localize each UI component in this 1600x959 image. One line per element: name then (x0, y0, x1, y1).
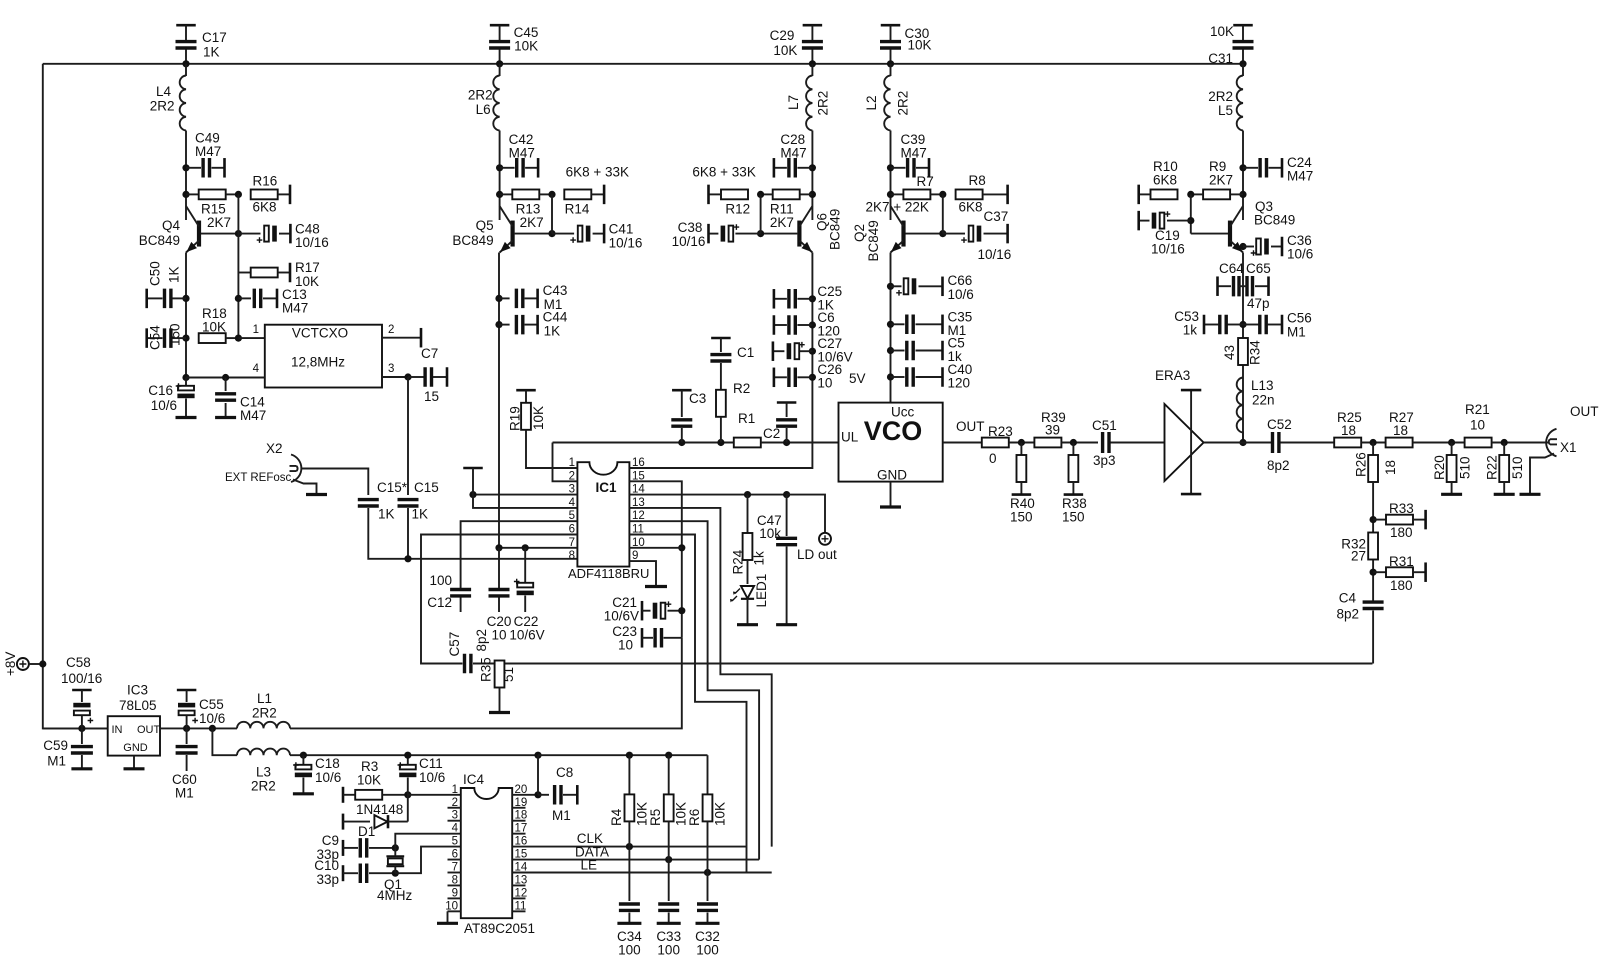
terminal bar C26 (773, 368, 776, 388)
wire to VCO UL (761, 442, 839, 444)
terminal bar C2 (777, 401, 797, 404)
svg-text:2K7: 2K7 (1209, 173, 1233, 188)
ground C32 (696, 922, 720, 925)
svg-text:4: 4 (452, 823, 459, 835)
svg-text:10K: 10K (713, 802, 728, 826)
resistor R7 (903, 190, 930, 200)
wire (890, 25, 892, 40)
svg-text:L1: L1 (257, 691, 272, 706)
wire (786, 547, 788, 625)
wire R19 to IC1 pin 1 (526, 430, 577, 468)
svg-text:D1: D1 (358, 824, 375, 839)
svg-text:R19: R19 (508, 406, 523, 431)
wire (499, 64, 501, 76)
svg-text:8p2: 8p2 (1267, 458, 1290, 473)
wire (668, 913, 670, 923)
svg-text:OUT: OUT (956, 419, 985, 434)
svg-text:10K: 10K (202, 320, 226, 335)
svg-text:R5: R5 (648, 809, 663, 826)
capacitor C29 (802, 42, 823, 48)
wire (916, 376, 943, 378)
wire (173, 337, 187, 339)
wire (186, 728, 188, 744)
wire (388, 821, 408, 823)
svg-text:C51: C51 (1092, 418, 1117, 433)
junction base/C41 (548, 230, 555, 237)
junction C13 (235, 295, 242, 302)
svg-text:8p2: 8p2 (474, 629, 489, 652)
wire emitter line Q5 down to IC1 pin7 (498, 253, 500, 549)
wire (664, 637, 682, 639)
svg-text:BC849: BC849 (828, 209, 843, 250)
terminal bar C28 (773, 158, 776, 178)
wire (407, 755, 409, 764)
junction supply/pin20 (534, 752, 541, 759)
wire (1243, 324, 1259, 326)
svg-text:C43: C43 (543, 283, 568, 298)
svg-text:C1: C1 (737, 345, 754, 360)
svg-text:L4: L4 (156, 84, 172, 99)
svg-text:OUT: OUT (1570, 404, 1599, 419)
junction pin3 tie (469, 491, 476, 498)
svg-text:C9: C9 (322, 833, 339, 848)
capacitor C31 (1233, 42, 1254, 48)
wire (797, 167, 812, 169)
svg-text:10/16: 10/16 (978, 247, 1012, 262)
wire (891, 193, 904, 195)
svg-text:C7: C7 (421, 346, 438, 361)
wire bias vertical (942, 194, 944, 233)
terminal bar pin2 (420, 328, 423, 348)
svg-text:10K: 10K (908, 38, 932, 53)
svg-text:2K7: 2K7 (770, 215, 794, 230)
ground VCO (880, 505, 901, 508)
wire (1413, 442, 1465, 444)
junction pin20/C8 (534, 791, 541, 798)
wire (747, 560, 749, 584)
svg-text:2R2: 2R2 (468, 88, 493, 103)
capacitor C7 (425, 367, 431, 387)
wire (642, 637, 653, 639)
capacitor C22 (517, 583, 533, 588)
svg-text:R34: R34 (1248, 340, 1263, 365)
IC ADF4118BRU IC1 body (577, 462, 629, 566)
terminal bar C37 (1006, 224, 1009, 244)
wire IC4 pin 10 (448, 910, 461, 912)
terminal bar C49 (223, 158, 226, 178)
junction C21/Vdd bus (678, 607, 685, 614)
svg-text:2K7: 2K7 (520, 215, 544, 230)
transistor Q5 (510, 221, 514, 247)
wire (499, 297, 510, 299)
wire (212, 167, 225, 169)
svg-text:M47: M47 (282, 301, 308, 316)
svg-text:10/6: 10/6 (151, 398, 177, 413)
junction base/C48 (235, 230, 242, 237)
junction C17/rail (182, 60, 189, 67)
svg-text:10/16: 10/16 (672, 234, 706, 249)
svg-text:R26: R26 (1354, 452, 1369, 477)
terminal bar C5 (941, 341, 944, 361)
svg-text:BC849: BC849 (1254, 213, 1295, 228)
resistor R9 (1203, 190, 1230, 200)
junction C5 (887, 347, 894, 354)
svg-text:C52: C52 (1267, 417, 1292, 432)
junction R15/R16 (235, 191, 242, 198)
wire (930, 193, 942, 195)
terminal bar C3 (672, 389, 692, 392)
resistor R38 (1069, 455, 1079, 482)
svg-text:R12: R12 (725, 202, 750, 217)
transistor Q6 (797, 221, 801, 247)
wire down to C4 (1372, 482, 1374, 601)
capacitor C41 (578, 226, 583, 242)
svg-text:43: 43 (1222, 345, 1237, 360)
IC AT89C2051 IC4 body (461, 788, 512, 918)
wire (186, 167, 201, 169)
wire (226, 337, 239, 339)
transistor Q4 (197, 221, 201, 247)
resistor R40 (1017, 455, 1027, 482)
junction R9/R10 (1187, 191, 1194, 198)
wire (225, 378, 227, 392)
junction C3 (678, 439, 685, 446)
svg-text:LD out: LD out (797, 547, 837, 562)
wire collector line Q4 (185, 131, 187, 221)
wire ERA3 output (1204, 442, 1272, 444)
junction C19 (1187, 217, 1194, 224)
wire (185, 378, 187, 389)
capacitor C48 (264, 226, 269, 242)
junction C29/rail (809, 60, 816, 67)
ground R20 (1441, 493, 1462, 496)
capacitor C56 (1260, 315, 1266, 335)
svg-text:AT89C2051: AT89C2051 (464, 921, 535, 936)
svg-text:10: 10 (491, 628, 506, 643)
wire (681, 390, 683, 417)
wire (1271, 246, 1282, 248)
svg-text:10/6: 10/6 (315, 770, 341, 785)
svg-text:10: 10 (817, 376, 832, 391)
svg-text:3p3: 3p3 (1093, 453, 1116, 468)
wire (447, 911, 449, 922)
wire C4 to RF line (1372, 611, 1374, 664)
capacitor C45 (489, 42, 510, 48)
wire (343, 794, 355, 796)
wire crystal to IC4 pin 5 (395, 847, 461, 874)
junction pin7/C20 (495, 544, 502, 551)
terminal bar C23 (641, 628, 644, 648)
svg-text:C41: C41 (609, 222, 634, 237)
wire bias vertical (760, 194, 762, 233)
capacitor C2 (776, 420, 797, 426)
svg-text:GND: GND (877, 468, 907, 483)
wire (1072, 443, 1074, 456)
resistor R23 (982, 438, 1009, 448)
wire LE line (512, 872, 772, 874)
junction C30/rail (887, 60, 894, 67)
terminal bar D1 (342, 814, 345, 830)
svg-text:ERA3: ERA3 (1155, 368, 1190, 383)
capacitor C23 (655, 628, 661, 648)
terminal bar above C45 (490, 24, 510, 27)
capacitor C20 (489, 590, 510, 596)
terminal bar R40 (1012, 493, 1032, 496)
wire (774, 167, 787, 169)
capacitor C34 (619, 904, 640, 910)
capacitor C44 (516, 315, 522, 335)
svg-text:LE: LE (580, 858, 597, 873)
capacitor C1 (710, 355, 731, 361)
wire IC1 pin 2 up to loop filter (553, 443, 578, 482)
svg-text:L13: L13 (1251, 378, 1274, 393)
wire (797, 350, 812, 352)
wire (1372, 443, 1374, 456)
wire IC1 pin 13 to LE (629, 508, 771, 847)
wire (302, 778, 304, 794)
ground C18 (293, 792, 314, 795)
terminal bar C24 (1281, 158, 1284, 178)
wire (81, 690, 83, 702)
svg-text:18: 18 (1341, 423, 1356, 438)
wire (774, 324, 787, 326)
terminal bar C21 (641, 601, 644, 621)
wire (1243, 246, 1254, 248)
wire (983, 193, 1008, 195)
ground IC3 (124, 767, 145, 770)
wire (799, 193, 812, 195)
capacitor C5 (907, 341, 913, 361)
wire (891, 323, 905, 325)
capacitor C18 (295, 765, 311, 770)
wire (185, 25, 187, 40)
junction C54/R18 (182, 335, 189, 342)
junction C35 (887, 321, 894, 328)
svg-text:6K8 + 33K: 6K8 + 33K (566, 165, 629, 180)
wire (343, 847, 358, 849)
wire IC4 pin 18 stub (512, 820, 525, 822)
terminal bar R38 (1064, 493, 1084, 496)
capacitor C49 (203, 158, 209, 178)
terminal bar C43 (536, 289, 539, 309)
wire IC3 gnd (133, 756, 135, 768)
junction R40 (1018, 439, 1025, 446)
capacitor C39 (908, 158, 914, 178)
terminal bar C66 (941, 277, 944, 297)
capacitor C43 (516, 289, 522, 309)
capacitor C17 (176, 42, 197, 48)
svg-text:2R2: 2R2 (816, 91, 831, 116)
wire (1451, 443, 1453, 456)
IC 78L05 IC3 body (108, 716, 160, 755)
wire (774, 376, 787, 378)
wire (1255, 285, 1269, 287)
capacitor C51 (1103, 432, 1109, 453)
junction C58/C59 (78, 725, 85, 732)
wire (720, 338, 722, 352)
svg-text:5V: 5V (849, 371, 866, 386)
svg-text:2R2: 2R2 (1208, 89, 1233, 104)
wire emitter Q6 down to IC1 pin 16 (629, 253, 812, 469)
svg-text:2K7: 2K7 (207, 215, 231, 230)
capacitor C66 (904, 278, 909, 294)
junction pin3/C15 (404, 373, 411, 380)
ground bar pin 9 (645, 585, 667, 588)
svg-text:EXT REFosc: EXT REFosc (225, 472, 291, 484)
junction crystal top (392, 844, 399, 851)
resistor R21 (1465, 438, 1492, 448)
svg-text:22n: 22n (1252, 393, 1275, 408)
ground C33 (657, 922, 681, 925)
wire (279, 233, 290, 235)
wire (1242, 432, 1244, 443)
junction C28 tap (809, 164, 816, 171)
wire IC1 pin 10 (629, 547, 681, 549)
capacitor C21 (661, 603, 666, 619)
capacitor C27 (795, 343, 800, 359)
svg-text:1k: 1k (1183, 323, 1198, 338)
terminal bar above C30 (881, 24, 901, 27)
svg-text:R24: R24 (731, 549, 746, 574)
svg-text:C54: C54 (147, 325, 162, 350)
svg-text:Q2: Q2 (852, 224, 867, 242)
svg-text:L5: L5 (1218, 103, 1233, 118)
svg-text:M47: M47 (1287, 169, 1313, 184)
wire (369, 847, 395, 849)
wire VCTCXO pin 4 (186, 377, 265, 379)
capacitor C8 (555, 785, 561, 805)
connector X2 (291, 455, 301, 483)
svg-text:R6: R6 (687, 809, 702, 826)
svg-text:R7: R7 (917, 174, 934, 189)
svg-text:100: 100 (657, 943, 680, 958)
terminal bar R19 (516, 389, 536, 392)
terminal bar C6 (773, 315, 776, 335)
wire IC4 pin 9 stub (448, 897, 461, 899)
terminal bar C25 (773, 289, 776, 309)
capacitor C9 (360, 838, 366, 858)
wire (499, 324, 510, 326)
svg-text:78L05: 78L05 (119, 698, 157, 713)
terminal bar C1 (711, 337, 731, 340)
svg-text:M47: M47 (195, 144, 221, 159)
resistor R32 (1368, 533, 1378, 560)
wire +5V rail over pullups (538, 754, 708, 756)
capacitor C55 (179, 711, 195, 716)
svg-text:C64: C64 (1219, 261, 1244, 276)
svg-text:C58: C58 (66, 655, 91, 670)
terminal bar C36 (1281, 237, 1284, 257)
svg-text:M47: M47 (240, 408, 266, 423)
terminal bar C10 (342, 865, 345, 881)
wire IC1 pin 3 (473, 494, 577, 496)
wire (1139, 220, 1150, 222)
ground R35 (489, 711, 510, 714)
wire (500, 193, 513, 195)
capacitor C33 (658, 904, 679, 910)
wire (1269, 167, 1283, 169)
wire (408, 376, 424, 378)
junction C11 top (404, 752, 411, 759)
wire (1139, 193, 1151, 195)
terminal bar R12 (707, 185, 710, 205)
resistor R31 (1386, 567, 1413, 577)
svg-text:10K: 10K (1210, 24, 1234, 39)
svg-text:100/16: 100/16 (61, 671, 102, 686)
svg-text:18: 18 (1393, 423, 1408, 438)
svg-text:ADF4118BRU: ADF4118BRU (568, 566, 649, 581)
junction R31 (1370, 569, 1377, 576)
ground X1 shell (1530, 454, 1554, 494)
svg-text:R35: R35 (479, 657, 494, 682)
wire IC1 pin 7 (499, 547, 577, 549)
junction L13/output (1239, 439, 1246, 446)
capacitor C16 (178, 386, 194, 391)
terminal bar C27 (772, 341, 775, 361)
wire (786, 403, 788, 418)
svg-text:10/16: 10/16 (295, 235, 329, 250)
junction C6 (809, 321, 816, 328)
svg-text:R4: R4 (609, 808, 624, 826)
wire to IC4 pin 1 (408, 794, 461, 796)
wire (1503, 443, 1505, 456)
svg-text:R21: R21 (1465, 402, 1490, 417)
svg-text:C44: C44 (543, 310, 568, 325)
svg-text:M1: M1 (552, 808, 571, 823)
junction R4/CLK (626, 843, 633, 850)
wire (943, 233, 965, 235)
svg-text:39: 39 (1045, 423, 1060, 438)
ground R22 (1494, 493, 1515, 496)
wire (891, 167, 906, 169)
wire (147, 337, 163, 339)
wire branch to L3 (212, 728, 237, 755)
svg-text:R2: R2 (733, 381, 750, 396)
svg-text:1K: 1K (203, 45, 220, 60)
wire (500, 167, 515, 169)
svg-text:R22: R22 (1485, 455, 1500, 480)
svg-text:100: 100 (429, 573, 452, 588)
wire (225, 403, 227, 417)
junction C53/C56 (1239, 321, 1246, 328)
svg-text:C31: C31 (1208, 51, 1233, 66)
wire (891, 285, 902, 287)
junction emitter/C16 (182, 374, 189, 381)
junction R7 row (887, 191, 894, 198)
wire (538, 794, 549, 796)
wire IC1 pin 4 (473, 468, 577, 508)
junction pin7/C22 (522, 544, 529, 551)
svg-text:L2: L2 (864, 95, 879, 110)
wire (524, 596, 526, 613)
wire (1239, 285, 1247, 287)
capacitor C15 (398, 500, 419, 506)
svg-text:150: 150 (1062, 510, 1085, 525)
capacitor C25 (789, 289, 795, 309)
resistor R4 (625, 794, 635, 821)
svg-text:2R2: 2R2 (252, 706, 277, 721)
junction C40 (887, 373, 894, 380)
wire left +8V feed down to IC3 (43, 64, 108, 729)
wire IC4 pin 3 stub (448, 820, 461, 822)
resistor R11 (773, 190, 800, 200)
junction R20 (1448, 439, 1455, 446)
wire IC4 pin 17 stub (512, 833, 525, 835)
svg-text:C18: C18 (315, 756, 340, 771)
svg-text:IN: IN (112, 724, 123, 736)
wire (539, 193, 552, 195)
inductor L7 (806, 76, 812, 131)
